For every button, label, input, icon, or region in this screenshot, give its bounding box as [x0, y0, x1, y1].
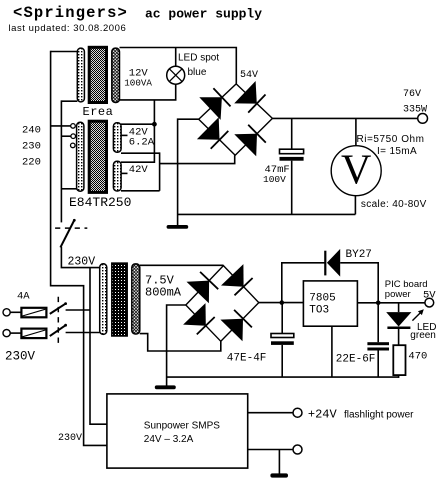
svg-text:47E-4F: 47E-4F	[227, 353, 267, 365]
wire B2 plus to regulator	[259, 302, 304, 304]
wire 240 tap	[51, 125, 71, 127]
svg-text:76V: 76V	[403, 89, 421, 100]
wire T2 primary bottom	[61, 188, 76, 190]
wire to bridge B1 AC bottom	[160, 155, 235, 163]
transformer T2 core	[89, 121, 106, 192]
svg-text:230V: 230V	[5, 350, 36, 364]
wire B1 plus to output	[272, 117, 417, 119]
svg-text:Ri=5750 Ohm: Ri=5750 Ohm	[357, 134, 425, 145]
capacitor C2 47E-4F	[271, 334, 294, 345]
svg-text:E84TR250: E84TR250	[69, 195, 131, 210]
wire C3 top	[377, 303, 379, 342]
switch S3 tip nub	[73, 219, 76, 222]
svg-text:100V: 100V	[263, 174, 286, 185]
wire resistor to rail	[398, 375, 400, 378]
fuse F1	[21, 308, 46, 318]
terminal +24V	[293, 408, 302, 417]
regulator U1 7805 TO3	[303, 281, 357, 326]
main switch S3 lever	[60, 221, 74, 248]
wire BY27 left leg	[282, 263, 325, 303]
ground bar SMPS area	[155, 385, 176, 389]
bridge rectifier B2 outline	[186, 266, 259, 342]
capacitor C3 22E-6F	[367, 342, 389, 350]
LED arrow	[412, 309, 423, 320]
lamp LED spot blue	[167, 66, 185, 84]
svg-text:V: V	[341, 148, 371, 194]
wire C1 bottom	[291, 161, 293, 215]
transformer T2 primary winding	[77, 122, 84, 191]
svg-text:+24V: +24V	[308, 408, 338, 422]
switch S2 tip nub	[64, 324, 67, 327]
wire C2 top	[281, 303, 283, 334]
transformer T3 secondary winding	[132, 264, 140, 334]
terminal mains N	[3, 330, 10, 337]
svg-text:TO3: TO3	[309, 305, 329, 317]
wire voltmeter top	[355, 118, 357, 145]
wire T1 primary bottom	[61, 100, 77, 102]
wire winding A top	[121, 123, 154, 125]
diode B2-TL	[187, 272, 219, 303]
svg-text:power: power	[385, 289, 411, 300]
wire C2 bottom	[281, 345, 283, 377]
diode B1-TR	[234, 81, 265, 113]
wire T3 secondary bottom to bridge B2	[140, 334, 221, 351]
svg-text:<Springers>: <Springers>	[13, 4, 128, 22]
transformer T1 core	[89, 47, 106, 102]
svg-text:42V: 42V	[129, 164, 149, 176]
svg-text:24V – 3.2A: 24V – 3.2A	[144, 434, 194, 445]
diode B1-BR	[234, 125, 265, 157]
svg-text:220: 220	[22, 157, 41, 169]
svg-text:last updated: 30.08.2006: last updated: 30.08.2006	[9, 23, 127, 34]
svg-text:335W: 335W	[403, 105, 427, 116]
wire lamp branch bottom	[120, 84, 176, 100]
stub winding B tap	[121, 172, 127, 174]
wire return to ground	[278, 450, 280, 474]
terminal 230 tap	[71, 134, 76, 139]
svg-text:5V: 5V	[423, 290, 436, 302]
diode B2-BR	[220, 310, 252, 341]
svg-text:ac power supply: ac power supply	[145, 7, 262, 22]
svg-text:470: 470	[408, 351, 427, 363]
wire S2 to transformer T3 bottom	[66, 332, 100, 334]
switch S1 lever	[50, 304, 66, 314]
svg-text:BY27: BY27	[346, 249, 372, 261]
wire 230 tap	[61, 135, 71, 137]
switch S2 lever	[50, 325, 66, 336]
svg-text:blue: blue	[188, 67, 207, 78]
capacitor C1 47mF	[280, 149, 304, 161]
wire terminal to fuse F1	[10, 311, 21, 313]
svg-text:7805: 7805	[309, 293, 335, 305]
svg-text:I= 15mA: I= 15mA	[377, 146, 417, 157]
junction node output	[376, 301, 381, 306]
diode B1-BL	[197, 117, 228, 149]
svg-text:54V: 54V	[240, 70, 258, 81]
wire minus rail circuit 2	[167, 376, 399, 378]
wire C1 top	[291, 118, 293, 149]
wire neutral jog	[51, 286, 107, 446]
wire terminal to fuse F2	[10, 332, 21, 334]
svg-text:230V: 230V	[68, 256, 96, 269]
wire C3 bottom	[377, 351, 379, 378]
wire minus rail	[178, 213, 356, 215]
ground bar main	[167, 225, 189, 229]
transformer T1 secondary winding	[112, 48, 120, 102]
mechanical link dashes S1-S2	[57, 297, 59, 343]
svg-text:800mA: 800mA	[145, 286, 182, 300]
wire neutral bus vertical	[50, 51, 52, 287]
wire live bus vertical upper	[60, 100, 62, 222]
wire T1 primary top	[51, 51, 78, 53]
transformer T1 primary winding	[77, 48, 84, 102]
transformer T3 core	[112, 263, 127, 336]
wire parallel link verticals	[159, 152, 161, 190]
diode D1 BY27	[325, 249, 340, 277]
wire BY27 right leg	[340, 263, 378, 303]
diode B2-TR	[221, 264, 253, 295]
svg-text:LED spot: LED spot	[178, 53, 219, 64]
terminal 76V output	[418, 114, 428, 124]
svg-text:Erea: Erea	[83, 105, 114, 119]
wire lamp branch top	[175, 48, 177, 67]
wire LED top	[398, 303, 400, 312]
diode B2-BL	[183, 303, 215, 334]
svg-text:flashlight power: flashlight power	[344, 410, 414, 421]
wire live drop to SMPS	[90, 268, 107, 425]
svg-text:Sunpower SMPS: Sunpower SMPS	[144, 421, 220, 432]
transformer T2 secondary winding A	[113, 123, 121, 153]
wire LED to resistor	[398, 329, 400, 345]
junction node 12V/42V	[152, 122, 157, 127]
wire T3 secondary top to bridge B2	[140, 264, 224, 266]
svg-text:100VA: 100VA	[124, 78, 152, 89]
terminal 240 tap	[71, 124, 76, 129]
terminal mains L	[3, 309, 10, 316]
resistor R1 470	[393, 345, 405, 375]
wire live bus below S3	[61, 247, 99, 268]
terminal 24V return	[293, 445, 302, 454]
wire series link 12V bottom to 42V windings	[121, 100, 154, 162]
fuse F2	[21, 329, 46, 339]
wire SMPS return output	[248, 449, 293, 451]
svg-text:scale: 40-80V: scale: 40-80V	[361, 199, 427, 210]
svg-text:6.2A: 6.2A	[129, 137, 155, 149]
stub winding A tap	[121, 134, 127, 136]
ground bar 24V return	[270, 473, 288, 477]
LED D2 green	[386, 312, 411, 329]
wire winding A bottom	[121, 152, 160, 154]
svg-text:4A: 4A	[17, 291, 30, 303]
SMPS box Sunpower	[107, 394, 248, 468]
bridge rectifier B1 outline	[199, 84, 273, 155]
wire regulator output	[357, 302, 425, 304]
wire B2 minus to ground	[167, 305, 186, 386]
svg-text:230: 230	[22, 141, 41, 153]
transformer T2 secondary winding B	[113, 161, 121, 191]
wire regulator ground pin	[331, 326, 333, 377]
switch S1 tip nub	[64, 302, 67, 305]
svg-text:22E-6F: 22E-6F	[336, 354, 376, 366]
junction node C2	[280, 300, 285, 305]
wire winding B bottom	[121, 190, 160, 192]
wire voltmeter bottom	[354, 196, 356, 215]
wire SMPS +24V output	[248, 412, 293, 414]
svg-text:230V: 230V	[58, 433, 82, 444]
diode B1-TL	[199, 88, 230, 120]
terminal 220 tap	[71, 143, 76, 148]
wire B1 minus to ground	[178, 119, 199, 225]
wire S1 to live drop	[66, 309, 90, 311]
svg-text:240: 240	[22, 125, 41, 137]
transformer T3 primary winding	[100, 264, 107, 335]
wire T1 secondary top to bridge B1	[120, 48, 237, 84]
mechanical link dashes S3	[55, 227, 87, 229]
terminal 5V output	[425, 298, 434, 307]
voltmeter M1	[331, 146, 381, 196]
svg-text:green: green	[410, 330, 436, 341]
